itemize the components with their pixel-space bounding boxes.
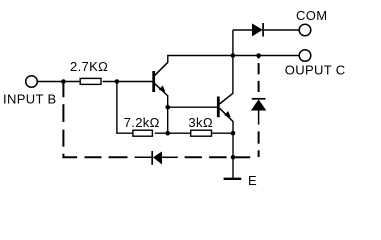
diode D3 (dashed return, pointing left) — [135, 151, 178, 165]
resistor R2 body — [133, 130, 153, 136]
svg-text:3kΩ: 3kΩ — [188, 115, 213, 130]
terminal OUPUT C — [299, 50, 311, 62]
svg-text:7.2kΩ: 7.2kΩ — [124, 115, 160, 130]
diode D2 (collector clamp, pointing up) — [251, 99, 266, 125]
transistor Q2 — [218, 93, 233, 121]
node collector-output junction dot — [231, 53, 236, 58]
svg-text:COM: COM — [296, 8, 327, 23]
diode D1 (to COM) — [252, 23, 299, 37]
wire R2 to R3 — [155, 132, 191, 134]
wire input to R1 — [38, 81, 81, 83]
node Q1 emitter / Q2 base junction dot — [165, 105, 170, 110]
node emitter-resistor junction dot — [231, 131, 236, 136]
svg-text:E: E — [248, 173, 257, 188]
wire Q2 base — [168, 106, 219, 108]
wire R1 to Q1 base — [103, 81, 154, 83]
wire main collector vertical — [232, 30, 234, 94]
node emitter-dashed junction dot — [231, 155, 236, 160]
node A junction dot — [61, 79, 66, 84]
node R2-R3 junction dot — [165, 131, 170, 136]
svg-text:2.7KΩ: 2.7KΩ — [70, 59, 108, 74]
svg-text:OUPUT C: OUPUT C — [285, 62, 346, 77]
terminal INPUT B — [26, 76, 38, 88]
wire dashed right vertical lower — [258, 131, 260, 157]
svg-text:INPUT B: INPUT B — [3, 91, 57, 106]
wire Q1 collector up and right — [168, 56, 233, 63]
node B junction dot — [115, 79, 120, 84]
wire dashed bottom row right of diode — [185, 156, 251, 158]
terminal COM — [299, 24, 311, 36]
transistor Q1 — [154, 62, 168, 96]
resistor R3 body — [191, 130, 212, 136]
resistor R1 body — [80, 78, 101, 84]
wire dashed node A down to bottom row — [63, 82, 77, 158]
terminal E ground bar — [224, 178, 242, 180]
wire node B down to R2 — [117, 82, 133, 134]
wire Q2 emitter vertical down to E — [232, 121, 234, 179]
wire output row — [233, 55, 299, 57]
wire dashed bottom row left of diode — [85, 156, 128, 158]
wire dashed right vertical upper — [258, 56, 260, 93]
wire COM row — [233, 29, 252, 31]
node output-dashed junction dot — [256, 53, 261, 58]
wire Q1 emitter down — [167, 95, 169, 133]
wire R3 to main vertical — [212, 132, 233, 134]
